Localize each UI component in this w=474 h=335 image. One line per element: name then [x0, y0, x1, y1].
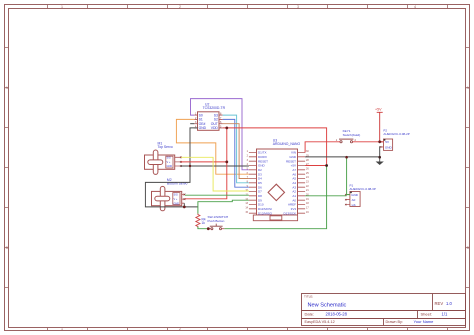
- pushbutton SW1: [208, 224, 224, 230]
- wire red dropper to servos: [185, 128, 227, 199]
- svg-text:Top Servo: Top Servo: [158, 145, 173, 149]
- svg-text:GND: GND: [174, 202, 180, 205]
- wire black U2 GND down: [145, 128, 197, 207]
- junction at +5V P2: [378, 140, 381, 143]
- color sensor U2 TCS3200D-TR: [194, 112, 222, 131]
- svg-text:GND: GND: [385, 146, 393, 150]
- servo M1: [145, 150, 182, 174]
- wire cyan S3 to D5: [223, 115, 249, 183]
- wire red +5V rail: [223, 128, 327, 166]
- svg-text:V +: V +: [167, 161, 171, 164]
- svg-text:4: 4: [414, 5, 416, 9]
- label M2: [167, 178, 188, 186]
- svg-text:GND: GND: [199, 126, 207, 130]
- label SW1: [208, 215, 229, 223]
- svg-text:1/1: 1/1: [442, 311, 448, 316]
- junction at M2 GND: [183, 206, 186, 209]
- ground: [376, 157, 384, 165]
- connector P2: [380, 139, 393, 150]
- wire yellow M1 SIG to D7: [181, 157, 249, 191]
- label U2: [203, 102, 226, 109]
- wire purple S0 to D2: [191, 99, 249, 170]
- svg-text:D8: D8: [258, 194, 262, 198]
- svg-text:AUEDGVC-0.08-3P: AUEDGVC-0.08-3P: [350, 187, 376, 191]
- wire black GND right rail: [305, 156, 380, 158]
- svg-text:1: 1: [61, 327, 63, 331]
- svg-text:D0/RX: D0/RX: [258, 155, 267, 159]
- wire black OE# tie: [190, 123, 194, 125]
- svg-text:1k: 1k: [202, 221, 206, 225]
- svg-text:Sheet:: Sheet:: [421, 311, 433, 316]
- svg-text:GND: GND: [167, 165, 173, 168]
- svg-text:3V3: 3V3: [291, 207, 297, 211]
- svg-text:GND: GND: [289, 155, 297, 159]
- svg-text:A7: A7: [292, 168, 296, 172]
- svg-text:D2: D2: [258, 168, 262, 172]
- svg-text:AUEDGVC-0.08-2P: AUEDGVC-0.08-2P: [383, 132, 409, 136]
- svg-text:D11/MOSI: D11/MOSI: [258, 207, 272, 211]
- svg-text:Lib: Lib: [352, 203, 356, 207]
- svg-text:A0: A0: [352, 198, 356, 202]
- svg-text:A1: A1: [292, 194, 296, 198]
- junction at +5V pin: [325, 164, 328, 167]
- svg-text:Push Button: Push Button: [208, 219, 225, 223]
- svg-text:EasyEDA V5.4.12: EasyEDA V5.4.12: [305, 320, 335, 324]
- junction at ground drop: [378, 156, 381, 159]
- svg-text:2: 2: [179, 5, 181, 9]
- wire black P2 GND drop: [379, 147, 382, 157]
- arduino usb connector: [253, 215, 297, 221]
- title block text: [304, 295, 443, 325]
- svg-text:REV: REV: [435, 301, 444, 306]
- svg-text:GND: GND: [351, 193, 359, 197]
- wire green GND to P1: [347, 157, 350, 194]
- junction at P1 GND drop: [345, 156, 348, 159]
- svg-text:SIG: SIG: [174, 194, 178, 197]
- svg-text:Drawn By:: Drawn By:: [386, 320, 404, 324]
- svg-text:2: 2: [179, 327, 181, 331]
- resistor R4: [196, 214, 200, 228]
- svg-text:New Schematic: New Schematic: [308, 302, 347, 308]
- svg-text:2018-05-28: 2018-05-28: [326, 311, 348, 316]
- label P2: [383, 129, 409, 137]
- arduino U3 ARDUINO_NANO: [245, 149, 309, 215]
- label M1: [158, 141, 173, 149]
- svg-text:3: 3: [297, 5, 299, 9]
- svg-text:TCS3200D-TR: TCS3200D-TR: [203, 106, 226, 110]
- junction at U2 GND drop: [189, 165, 191, 167]
- wire blue S2 to D6: [223, 119, 249, 187]
- connector P1: [345, 192, 360, 207]
- wire orange S1 to D3: [176, 119, 249, 174]
- wire green M2 SIG to D8: [185, 194, 249, 196]
- wire red M1 V+: [181, 161, 227, 163]
- key switch KEY1: [336, 138, 357, 143]
- wire green D9 to R4: [198, 200, 249, 213]
- label R4: [202, 217, 206, 225]
- label KEY1: [343, 129, 361, 137]
- svg-text:VDD: VDD: [211, 126, 219, 130]
- svg-text:A4: A4: [292, 181, 296, 185]
- wire green A1 to P1: [305, 195, 347, 197]
- svg-text:TITLE:: TITLE:: [304, 295, 313, 299]
- svg-text:Your Name: Your Name: [414, 319, 435, 324]
- svg-text:1: 1: [61, 5, 63, 9]
- junction at button R4: [207, 227, 210, 230]
- svg-text:Switch(bvkd): Switch(bvkd): [343, 133, 361, 137]
- svg-text:ARDUINO_NANO: ARDUINO_NANO: [273, 142, 301, 146]
- svg-text:+5V: +5V: [375, 107, 382, 111]
- svg-text:SIG: SIG: [167, 156, 171, 159]
- label U3: [273, 138, 301, 146]
- wire black GND rail: [181, 165, 249, 167]
- wire tan OUT to D4: [223, 124, 249, 179]
- junction at VDD rail: [225, 127, 228, 130]
- wire red VIN to KEY1 to P2: [305, 142, 383, 153]
- svg-text:1.0: 1.0: [446, 301, 452, 306]
- svg-text:Date:: Date:: [305, 311, 315, 316]
- junction at M1 V+: [225, 161, 228, 164]
- title block: [302, 294, 466, 326]
- power flag +5V: [375, 107, 383, 141]
- svg-text:V +: V +: [174, 198, 178, 201]
- servo M2: [152, 186, 186, 210]
- wire black M2 GND drop: [184, 203, 197, 207]
- svg-text:D5: D5: [258, 181, 262, 185]
- wire green button to +5V: [198, 166, 327, 229]
- label P1: [350, 183, 376, 191]
